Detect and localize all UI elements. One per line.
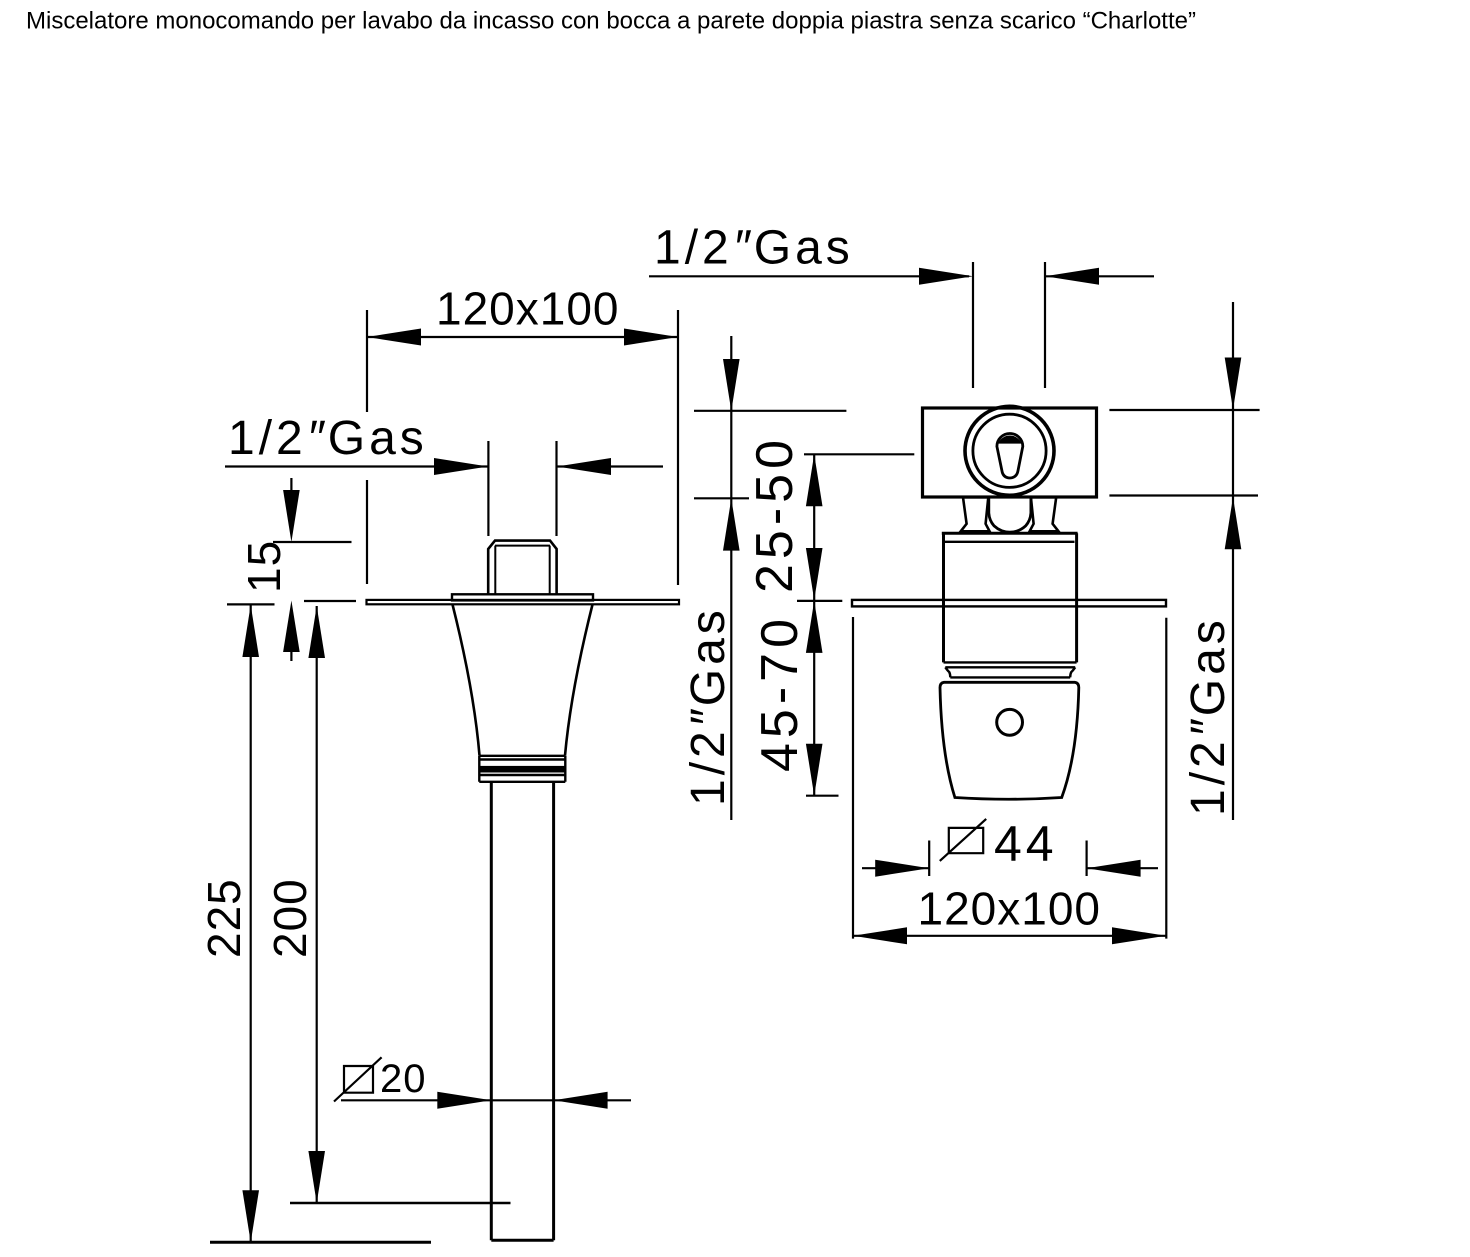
extension lines below plate right view <box>853 617 1166 939</box>
wall plate right view <box>852 600 1166 607</box>
dim 1/2"Gas left: arrow right-pointing <box>434 458 488 475</box>
dim 15: reference line plate top <box>304 600 356 602</box>
cartridge walls <box>944 533 1077 662</box>
dim 45-70: up arrow <box>806 601 823 653</box>
dim diam44: diameter glyph <box>940 819 986 861</box>
dim 120x100 bottom: arrow left <box>853 927 907 944</box>
valve centre post <box>989 497 1031 532</box>
dim 120x100 left: arrow left <box>367 329 421 346</box>
dim 15: lower arrow line <box>290 640 292 661</box>
dim 25-50: top tick <box>804 453 914 455</box>
dim 120x100 bottom: arrow right <box>1112 927 1166 944</box>
spout top plate bar <box>452 594 593 600</box>
unlabeled dim right: up arrow <box>1225 497 1242 549</box>
valve right leg <box>1030 497 1059 531</box>
bell body <box>940 682 1079 799</box>
svg-text:120x100: 120x100 <box>436 283 620 335</box>
dim diam44: ticks <box>929 841 1086 877</box>
dim 225: dimension line <box>250 605 252 1242</box>
wall plate <box>367 600 680 604</box>
svg-text:25-50: 25-50 <box>746 435 804 593</box>
dim diam20: arrow right-pointing <box>437 1092 491 1109</box>
svg-text:200: 200 <box>264 878 316 958</box>
dim 1/2"Gas top: extension lines <box>973 262 1045 388</box>
unlabeled dim left: line <box>730 336 732 820</box>
dim 15: reference line stub top <box>273 541 352 543</box>
svg-text:20: 20 <box>380 1057 427 1101</box>
dim diam44: arrow left-pointing <box>1087 860 1141 877</box>
valve outer circle <box>965 406 1054 495</box>
keyhole outline <box>997 433 1023 478</box>
dim 25-50: plate tick <box>797 600 842 602</box>
dim 200: bottom reference line <box>290 1202 511 1204</box>
spout ring <box>479 756 565 782</box>
valve inner ring <box>973 414 1046 487</box>
dim 15: upper arrow <box>283 490 300 542</box>
dim 200: top arrow <box>308 606 325 658</box>
spout tube <box>491 782 553 1241</box>
svg-text:45-70: 45-70 <box>751 614 809 772</box>
dim diam44: dimension line <box>862 867 1158 869</box>
cartridge band lines <box>944 662 1077 677</box>
unlabeled dim left: reference lines <box>694 411 846 499</box>
svg-text:225: 225 <box>198 878 250 958</box>
dim 120x100 left: extension line left <box>366 310 368 584</box>
dim diam20: diameter glyph <box>334 1057 382 1101</box>
svg-text:44: 44 <box>994 816 1058 872</box>
dim 45-70: down arrow <box>806 744 823 796</box>
dim 45-70: dimension line <box>813 601 815 796</box>
dim 1/2"Gas left: arrow left-pointing <box>557 458 611 475</box>
svg-text:1/2″Gas: 1/2″Gas <box>1182 616 1235 816</box>
dim 200: bottom arrow <box>308 1151 325 1203</box>
dim 45-70: bottom tick <box>806 795 839 797</box>
bell screw hole <box>997 709 1023 735</box>
svg-text:1/2″Gas: 1/2″Gas <box>654 222 854 275</box>
cartridge top lines <box>942 532 1078 535</box>
dim 1/2"Gas left: dimension line <box>225 465 663 467</box>
dim 200: dimension line <box>316 606 318 1203</box>
dim 225: top arrow <box>242 605 259 657</box>
svg-text:120x100: 120x100 <box>918 883 1102 935</box>
unlabeled dim left: down arrow <box>723 359 740 411</box>
dim 1/2"Gas top: arrow left-pointing <box>1045 268 1099 285</box>
valve left leg <box>961 497 990 531</box>
dim diam20: arrow left-pointing <box>554 1092 608 1109</box>
svg-text:1/2″Gas: 1/2″Gas <box>682 606 735 806</box>
spout funnel body <box>453 605 593 756</box>
unlabeled dim right: line <box>1232 302 1234 820</box>
unlabeled dim left: up arrow <box>723 499 740 551</box>
keyhole dark top <box>998 436 1022 444</box>
spout stub <box>488 541 556 595</box>
dim 25-50: dimension line <box>813 454 815 600</box>
unlabeled dim right: down arrow <box>1225 358 1242 410</box>
dim 225: reference tick plate bottom <box>227 603 275 605</box>
dim 120x100 left: extension line right <box>677 310 679 585</box>
dim 120x100 left: dimension line <box>367 336 678 338</box>
dim diam20: dimension line <box>341 1099 631 1101</box>
dim 120x100 bottom: dimension line <box>853 935 1166 937</box>
svg-text:Miscelatore monocomando per la: Miscelatore monocomando per lavabo da in… <box>26 8 1196 35</box>
dim 25-50: down arrow <box>806 548 823 600</box>
dim 15: upper arrow line <box>290 478 292 500</box>
dim 120x100 left: arrow right <box>624 329 678 346</box>
dim 1/2"Gas top: arrow right-pointing <box>919 268 973 285</box>
dim 225: bottom arrow <box>242 1190 259 1242</box>
dim 25-50: up arrow <box>806 454 823 506</box>
dim 1/2"Gas top: dimension line <box>649 275 1154 277</box>
unlabeled dim right: reference lines <box>1109 410 1259 496</box>
dim 15: lower arrow <box>283 601 300 653</box>
dim 1/2"Gas left: extension lines <box>488 441 556 536</box>
svg-text:1/2″Gas: 1/2″Gas <box>228 412 428 465</box>
valve body rectangle <box>923 408 1097 497</box>
svg-text:15: 15 <box>238 540 290 593</box>
dim 225: bottom reference line <box>210 1241 431 1244</box>
dim diam44: arrow right-pointing <box>875 860 929 877</box>
